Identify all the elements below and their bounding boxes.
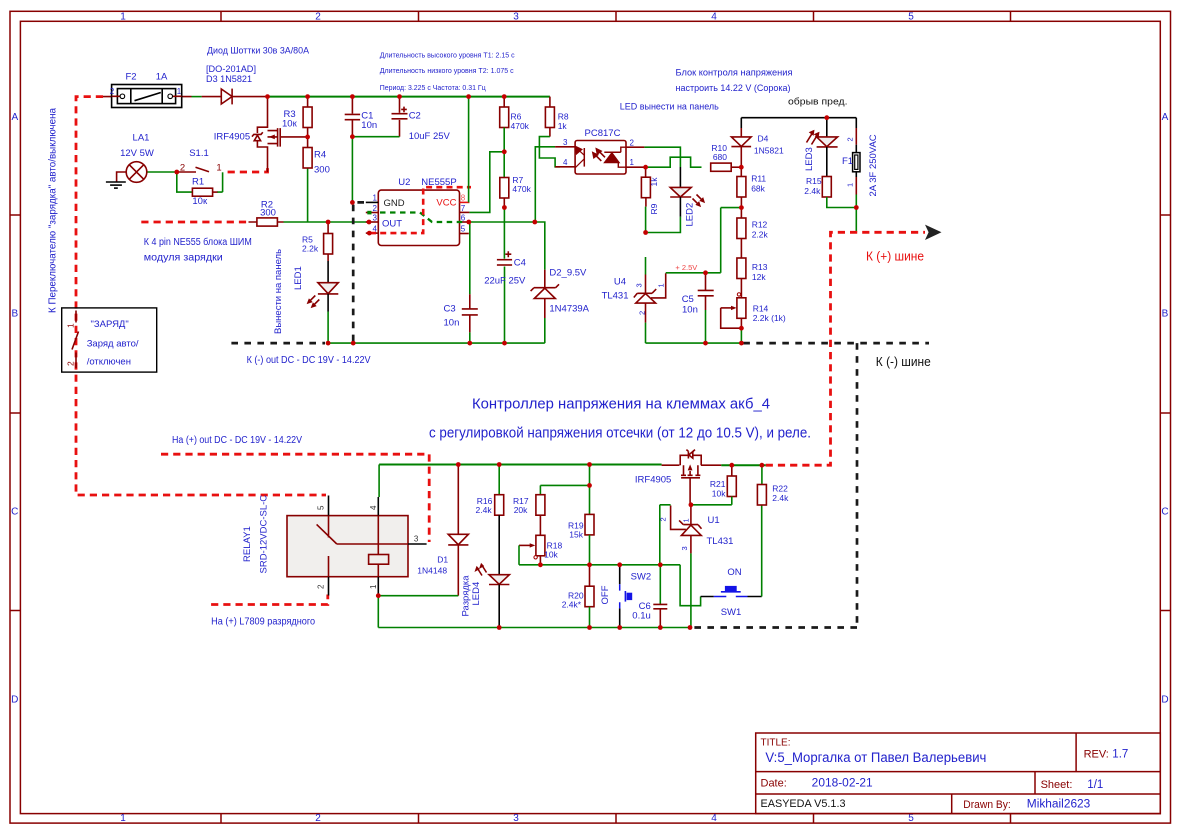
box ZARYAD: [62, 308, 157, 372]
wire OUT net right: [469, 222, 545, 270]
svg-text:B: B: [1162, 309, 1169, 320]
svg-text:1N4148: 1N4148: [417, 566, 447, 576]
transistor Q1 IRF4905: [214, 97, 308, 172]
svg-text:5: 5: [908, 813, 914, 824]
pin 2 stub: [626, 146, 645, 148]
svg-text:D3 1N5821: D3 1N5821: [206, 74, 252, 85]
svg-text:2: 2: [180, 163, 185, 174]
switch SW2: [600, 565, 651, 628]
svg-text:TITLE:: TITLE:: [761, 738, 791, 749]
svg-text:модуля зарядки: модуля зарядки: [144, 252, 223, 263]
red dashed left charger net: [76, 97, 326, 495]
fuse F1: [842, 118, 879, 233]
svg-text:470k: 470k: [512, 184, 531, 194]
resistor R2: [249, 200, 284, 227]
svg-text:20k: 20k: [514, 505, 528, 515]
svg-text:5: 5: [461, 224, 466, 233]
resistor R21: [691, 465, 736, 505]
svg-text:2: 2: [315, 813, 321, 824]
svg-text:К (-) out DC - DC 19V - 14.22V: К (-) out DC - DC 19V - 14.22V: [247, 355, 371, 366]
red dashed L7809 net: [211, 595, 328, 605]
pin 3 stub: [366, 221, 379, 223]
svg-text:1N4739A: 1N4739A: [549, 304, 589, 315]
svg-text:Sheet:: Sheet:: [1041, 779, 1073, 791]
svg-text:Вынести на панель: Вынести на панель: [273, 249, 284, 334]
svg-text:4: 4: [711, 12, 717, 23]
svg-text:R4: R4: [314, 150, 326, 161]
svg-text:2.4k: 2.4k: [772, 493, 789, 503]
diode D4: [731, 118, 784, 168]
resistor R15: [804, 176, 856, 208]
green dashed pin2-pin6: [380, 213, 466, 223]
svg-text:Период: 3.225 с Частота: 0.31: Период: 3.225 с Частота: 0.31 Гц: [380, 83, 487, 92]
svg-text:2: 2: [110, 87, 115, 96]
svg-text:D2_9.5V: D2_9.5V: [549, 268, 587, 279]
svg-text:2: 2: [658, 517, 667, 521]
svg-text:2.2k: 2.2k: [752, 230, 769, 240]
red dashed VCC net: [370, 187, 471, 233]
transistor Q2 IRF4905: [635, 450, 701, 505]
diode D3: [206, 46, 310, 105]
lamp LA1: [117, 133, 177, 183]
svg-text:C5: C5: [682, 294, 694, 305]
svg-text:R1: R1: [192, 177, 204, 188]
resistor R9: [641, 167, 659, 232]
svg-text:F2: F2: [125, 72, 136, 83]
svg-text:R13: R13: [752, 262, 768, 272]
black dashed bottom-left rail: [231, 342, 325, 345]
svg-text:PC817C: PC817C: [585, 128, 621, 139]
diode D1: [417, 465, 468, 596]
svg-text:GND: GND: [384, 198, 405, 209]
svg-text:TL431: TL431: [602, 291, 629, 302]
svg-text:1k: 1k: [558, 121, 568, 131]
pin 2: [328, 577, 330, 596]
resistor R6: [500, 97, 530, 178]
svg-text:2: 2: [66, 361, 76, 366]
svg-text:1: 1: [657, 283, 666, 287]
svg-text:REV:: REV:: [1084, 749, 1109, 761]
pin 1 stub: [626, 166, 646, 168]
svg-text:настроить 14.22 V (Сорока): настроить 14.22 V (Сорока): [676, 83, 791, 94]
svg-text:LED1: LED1: [293, 266, 304, 290]
svg-text:C4: C4: [514, 258, 526, 269]
svg-text:D4: D4: [758, 134, 769, 144]
wire R8 top lead: [549, 97, 551, 107]
resistor R12: [737, 208, 769, 258]
black dashed K- bus: [743, 342, 929, 345]
svg-text:1: 1: [369, 584, 378, 589]
svg-text:Блок контроля напряжения: Блок контроля напряжения: [676, 68, 793, 79]
svg-text:68k: 68k: [751, 184, 765, 194]
wire R17 top link: [540, 465, 589, 486]
svg-text:3: 3: [373, 213, 378, 222]
svg-text:S1.1: S1.1: [189, 148, 209, 159]
svg-text:10n: 10n: [361, 120, 377, 131]
svg-text:A: A: [1162, 112, 1169, 123]
svg-text:2: 2: [317, 584, 326, 589]
svg-text:7: 7: [461, 204, 466, 213]
svg-text:8: 8: [461, 194, 466, 203]
pin 4 stub: [366, 232, 379, 234]
svg-text:EASYEDA V5.1.3: EASYEDA V5.1.3: [761, 798, 846, 810]
LED LED3: [804, 118, 838, 177]
svg-text:RELAY1: RELAY1: [242, 526, 253, 562]
pin 3 stub: [555, 146, 575, 148]
resistor R19: [568, 485, 594, 564]
resistor R4: [303, 137, 330, 222]
svg-text:C3: C3: [444, 304, 456, 315]
resistor R16: [476, 465, 504, 575]
wire pin2 to LED2: [644, 147, 680, 167]
svg-text:Контроллер напряжения на клемм: Контроллер напряжения на клеммах акб_4: [472, 396, 770, 413]
fuse F2: [110, 72, 182, 108]
svg-text:обрыв пред.: обрыв пред.: [788, 97, 848, 108]
svg-text:Разрядка: Разрядка: [461, 575, 472, 617]
svg-text:R15: R15: [806, 176, 822, 186]
frame column labels bottom: [120, 813, 914, 824]
svg-text:3: 3: [635, 283, 644, 287]
wire top rail dark red segments: [102, 96, 266, 98]
svg-text:/отключен: /отключен: [87, 357, 131, 368]
svg-text:Диод Шоттки 30в 3А/80А: Диод Шоттки 30в 3А/80А: [207, 46, 310, 57]
wire GND rail right: [646, 342, 743, 344]
svg-text:3: 3: [513, 12, 519, 23]
svg-text:4: 4: [711, 813, 717, 824]
interior LED: [575, 147, 584, 168]
wire R11-R12 node to 2.5V riser: [721, 207, 742, 209]
zener D2: [531, 268, 590, 344]
svg-text:10n: 10n: [444, 318, 460, 329]
interior photo arrows: [593, 149, 605, 161]
svg-text:К (-) шине: К (-) шине: [876, 354, 931, 369]
svg-text:1: 1: [682, 518, 691, 522]
svg-text:2: 2: [630, 138, 635, 147]
wire bottom gnd rail: [378, 627, 690, 629]
svg-text:LED2: LED2: [685, 203, 696, 227]
LED LED4: [461, 564, 510, 627]
svg-text:3: 3: [513, 813, 519, 824]
svg-text:SRD-12VDC-SL-C: SRD-12VDC-SL-C: [259, 495, 270, 574]
capacitor C5: [682, 273, 714, 343]
resistor R22: [757, 465, 789, 505]
svg-text:SW2: SW2: [631, 572, 652, 583]
svg-text:R11: R11: [751, 174, 766, 184]
black dashed GND net: [353, 202, 364, 343]
svg-text:Заряд авто/: Заряд авто/: [87, 339, 139, 350]
svg-text:OFF: OFF: [600, 585, 611, 604]
svg-text:U2: U2: [398, 177, 410, 188]
wire SW1 net: [680, 565, 701, 606]
switch contact in box: [72, 311, 79, 369]
svg-text:4: 4: [369, 505, 378, 510]
svg-text:2.4k: 2.4k: [804, 186, 821, 196]
svg-text:2: 2: [373, 204, 378, 213]
svg-text:1: 1: [845, 183, 854, 187]
svg-text:1: 1: [373, 194, 378, 203]
pin 6 stub: [460, 221, 469, 223]
capacitor C6: [632, 565, 667, 628]
svg-text:2: 2: [315, 12, 321, 23]
svg-text:1: 1: [630, 158, 635, 167]
svg-text:2: 2: [638, 311, 647, 315]
svg-text:300: 300: [314, 165, 330, 176]
svg-text:C: C: [1161, 507, 1168, 518]
svg-text:Date:: Date:: [761, 778, 787, 790]
svg-text:B: B: [11, 309, 18, 320]
svg-text:10uF 25V: 10uF 25V: [409, 131, 451, 142]
svg-text:2: 2: [845, 137, 854, 141]
svg-text:U1: U1: [708, 515, 720, 526]
resistor R10: [711, 143, 742, 172]
pin 8 stub red: [460, 201, 470, 203]
svg-text:К (+) шине: К (+) шине: [866, 249, 924, 264]
svg-text:V:5_Моргалка от Павел Валерьев: V:5_Моргалка от Павел Валерьевич: [765, 750, 986, 765]
svg-text:Длительность низкого уровня Т2: Длительность низкого уровня Т2: 1.075 с: [380, 66, 514, 75]
potentiometer R14: [721, 293, 786, 343]
svg-text:12V 5W: 12V 5W: [120, 148, 154, 159]
svg-text:SW1: SW1: [721, 607, 742, 618]
capacitor C2: [352, 97, 450, 143]
wire +2.5V riser: [720, 208, 722, 273]
svg-text:15k: 15k: [569, 530, 583, 540]
svg-text:F1: F1: [842, 156, 853, 167]
svg-text:10к: 10к: [192, 196, 208, 207]
svg-text:Drawn By:: Drawn By:: [963, 799, 1011, 811]
svg-text:IRF4905: IRF4905: [214, 132, 250, 143]
resistor R17: [513, 485, 545, 535]
svg-text:На (+) out DC - DC 19V - 14.22: На (+) out DC - DC 19V - 14.22V: [172, 435, 302, 446]
svg-text:К Переключателю "зарядка" авто: К Переключателю "зарядка" авто/выключена: [48, 108, 59, 313]
svg-text:10к: 10к: [282, 119, 298, 130]
svg-text:A: A: [11, 112, 18, 123]
capacitor C3: [444, 222, 478, 343]
wire bottom rail green: [379, 464, 661, 466]
pin 4 stub: [555, 166, 575, 168]
svg-text:1N5821: 1N5821: [754, 146, 784, 156]
svg-text:C2: C2: [409, 111, 421, 122]
svg-text:2.4k: 2.4k: [476, 505, 493, 515]
svg-text:U4: U4: [614, 277, 626, 288]
wire GND rail left green: [328, 342, 545, 344]
relay RELAY1: [242, 465, 427, 596]
svg-text:D: D: [11, 695, 18, 706]
svg-text:LED вынести на панель: LED вынести на панель: [620, 102, 719, 113]
svg-text:VCC: VCC: [436, 198, 456, 209]
resistor R3: [282, 97, 312, 137]
wire pin7 jog: [469, 152, 504, 213]
svg-text:22uF 25V: 22uF 25V: [484, 276, 526, 287]
pin 3: [408, 543, 427, 545]
svg-text:с регулировкой напряжения отсе: с регулировкой напряжения отсечки (от 12…: [429, 425, 811, 442]
resistor R7: [500, 175, 532, 259]
svg-text:ON: ON: [727, 567, 741, 578]
svg-text:R14: R14: [753, 304, 769, 314]
svg-text:К 4 pin NE555 блока ШИМ: К 4 pin NE555 блока ШИМ: [144, 236, 252, 248]
svg-text:2018-02-21: 2018-02-21: [812, 778, 873, 790]
svg-text:На (+) L7809 разрядного: На (+) L7809 разрядного: [211, 617, 315, 628]
svg-text:LED3: LED3: [804, 147, 815, 171]
capacitor C1: [345, 97, 377, 203]
svg-text:Mikhail2623: Mikhail2623: [1027, 799, 1091, 811]
svg-text:1A: 1A: [156, 72, 168, 83]
wire S1.1 to MOSFET red dashed: [228, 166, 268, 173]
wire relay pin1 net: [378, 596, 458, 628]
frame row labels left: [11, 112, 18, 706]
resistor R1: [177, 172, 223, 207]
pin 1: [377, 577, 379, 596]
svg-text:OUT: OUT: [382, 219, 402, 230]
ground: [106, 182, 126, 188]
svg-text:R22: R22: [772, 484, 788, 494]
wire mid rail: [519, 564, 680, 566]
svg-text:TL431: TL431: [707, 536, 734, 547]
svg-text:R12: R12: [752, 220, 768, 230]
optocoupler U3 PC817C: [555, 128, 646, 174]
title block: [756, 733, 1161, 814]
svg-text:R9: R9: [649, 203, 659, 214]
LED LED1: [293, 261, 338, 343]
svg-text:12k: 12k: [752, 272, 766, 282]
svg-text:300: 300: [260, 207, 276, 218]
svg-text:LA1: LA1: [133, 133, 150, 144]
frame row labels right: [1161, 112, 1168, 706]
interior transistor: [604, 147, 625, 167]
svg-text:1/1: 1/1: [1087, 779, 1103, 791]
svg-text:IRF4905: IRF4905: [635, 475, 671, 486]
svg-text:2.2k: 2.2k: [302, 244, 319, 254]
wire R2 line red dashed: [141, 221, 248, 224]
resistor R13: [737, 258, 768, 298]
resistor R11: [737, 167, 767, 207]
svg-text:1: 1: [216, 163, 221, 174]
relay interior: [317, 516, 408, 577]
svg-text:5: 5: [317, 505, 326, 510]
svg-text:D1: D1: [437, 555, 448, 565]
red dashed K+ bus: [766, 232, 925, 465]
svg-text:D: D: [1161, 695, 1168, 706]
svg-text:5: 5: [908, 12, 914, 23]
svg-text:"ЗАРЯД": "ЗАРЯД": [91, 319, 129, 330]
svg-text:LED4: LED4: [471, 582, 482, 606]
svg-text:680: 680: [713, 152, 727, 162]
svg-text:C: C: [11, 507, 18, 518]
wire VCC riser green: [468, 97, 470, 203]
pin 5 stub: [460, 233, 469, 235]
svg-text:1: 1: [66, 323, 76, 328]
svg-text:3: 3: [680, 546, 689, 550]
svg-text:1.7: 1.7: [1112, 749, 1128, 761]
red dashed out DC net: [161, 454, 429, 542]
switch S1.1: [178, 148, 222, 192]
svg-text:2.4k*: 2.4k*: [562, 600, 582, 610]
LED LED2: [646, 187, 704, 232]
svg-text:2A 3F 250VAC: 2A 3F 250VAC: [868, 134, 879, 196]
switch SW1: [701, 567, 762, 618]
wire pin1 jog to R10: [646, 157, 702, 167]
pin 4: [378, 465, 380, 498]
svg-text:+ 2.5V: + 2.5V: [675, 263, 697, 272]
svg-text:1: 1: [120, 12, 126, 23]
svg-text:1: 1: [120, 813, 126, 824]
svg-text:1k: 1k: [649, 177, 659, 187]
svg-text:10k: 10k: [712, 489, 726, 499]
IC U2 NE555P box: [366, 177, 471, 246]
shunt U4 TL431: [602, 257, 721, 343]
shunt U1 TL431: [658, 505, 733, 628]
svg-text:0.1u: 0.1u: [632, 611, 651, 622]
svg-text:10k: 10k: [544, 550, 558, 560]
pin 2 stub: [366, 212, 379, 214]
pin 7 stub: [460, 211, 470, 213]
capacitor C4: [484, 251, 526, 343]
wire SW1 to R22: [761, 505, 763, 597]
wire pin3 opto riser: [535, 147, 555, 222]
svg-text:3: 3: [563, 138, 568, 147]
svg-text:10n: 10n: [682, 305, 698, 316]
pin 1 stub: [366, 201, 379, 203]
svg-text:1: 1: [177, 87, 182, 96]
svg-text:3: 3: [414, 535, 419, 544]
resistor R8: [539, 107, 568, 167]
arrow K+: [925, 225, 942, 240]
svg-text:470k: 470k: [511, 121, 530, 131]
frame column labels top: [120, 12, 914, 23]
svg-text:Длительность высокого уровня Т: Длительность высокого уровня Т1: 2.15 с: [380, 51, 515, 60]
wire obryv top black: [741, 117, 856, 119]
wire top rail green: [266, 96, 550, 98]
potentiometer R18: [519, 535, 562, 565]
resistor R20: [562, 565, 594, 628]
wire OUT net left: [284, 221, 370, 223]
svg-text:4: 4: [563, 158, 568, 167]
svg-text:2.2k (1k): 2.2k (1k): [753, 313, 786, 323]
resistor R5: [302, 222, 333, 261]
svg-text:R21: R21: [710, 479, 726, 489]
pin 5: [328, 496, 330, 516]
